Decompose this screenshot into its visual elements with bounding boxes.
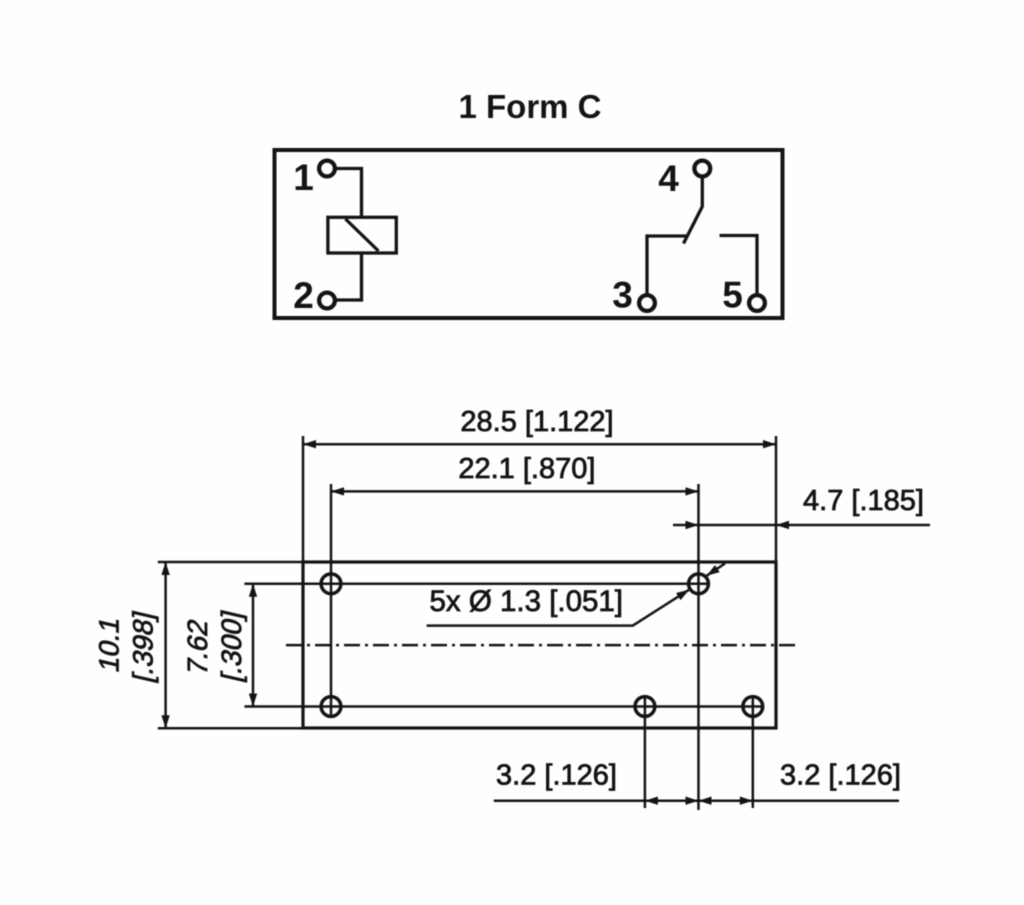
svg-text:3.2 [.126]: 3.2 [.126] [496, 760, 617, 792]
svg-text:22.1 [.870]: 22.1 [.870] [458, 453, 595, 485]
svg-text:3.2 [.126]: 3.2 [.126] [780, 760, 901, 792]
svg-text:4: 4 [658, 158, 679, 199]
svg-text:2: 2 [293, 275, 314, 316]
svg-text:4.7 [.185]: 4.7 [.185] [803, 485, 924, 517]
svg-text:1: 1 [293, 157, 314, 198]
svg-text:5: 5 [722, 275, 743, 316]
svg-text:28.5 [1.122]: 28.5 [1.122] [460, 406, 613, 438]
svg-text:1 Form C: 1 Form C [458, 88, 601, 125]
svg-text:3: 3 [612, 275, 633, 316]
svg-text:5x Ø 1.3 [.051]: 5x Ø 1.3 [.051] [430, 585, 624, 618]
